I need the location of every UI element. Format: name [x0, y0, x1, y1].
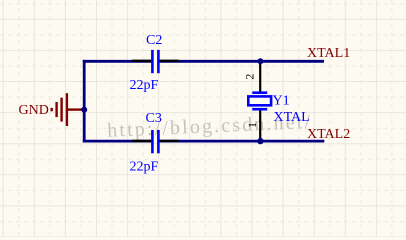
wire top horizontal net XTAL1	[83, 60, 152, 63]
svg-text:GND: GND	[19, 103, 49, 118]
svg-text:XTAL: XTAL	[274, 110, 310, 125]
capacitor C3 plates	[151, 130, 160, 153]
watermark	[107, 111, 313, 142]
junction crystal bottom wire	[257, 138, 263, 144]
wire bottom horizontal net XTAL2	[83, 140, 152, 143]
ground GND power port	[52, 93, 83, 126]
junction crystal top wire	[257, 58, 263, 64]
crystal Y1 pin 2 lead	[259, 61, 261, 92]
crystal Y1 top plate	[252, 91, 267, 94]
junction GND to vertical wire	[81, 107, 87, 113]
svg-text:C3: C3	[146, 111, 162, 126]
svg-text:22pF: 22pF	[130, 160, 159, 175]
svg-text:XTAL2: XTAL2	[307, 127, 350, 142]
crystal Y1 body	[248, 96, 271, 105]
svg-text:22pF: 22pF	[130, 78, 159, 93]
wire left vertical	[83, 60, 86, 142]
svg-text:C2: C2	[146, 33, 162, 48]
svg-text:Y1: Y1	[273, 93, 290, 108]
capacitor C3 pins	[132, 140, 179, 142]
svg-text:1: 1	[245, 122, 259, 128]
svg-text:XTAL1: XTAL1	[307, 46, 350, 61]
capacitor C2 pins	[132, 60, 179, 62]
crystal Y1 pin 1 lead	[259, 110, 261, 141]
crystal Y1 bottom plate	[252, 108, 267, 111]
svg-text:2: 2	[242, 74, 256, 80]
capacitor C2 plates	[151, 50, 160, 73]
